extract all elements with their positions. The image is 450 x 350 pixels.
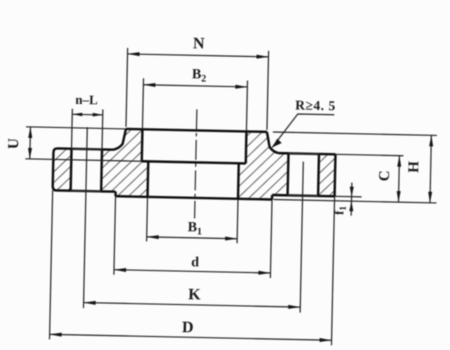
leader line R>=4.5 [272, 113, 334, 148]
hatched right rim section [318, 154, 335, 196]
plate top right [278, 153, 335, 154]
left bolt hole left wall [69, 149, 72, 191]
dimension f1 extension line (plate bottom) [335, 195, 362, 198]
D arrows [50, 332, 62, 336]
dimension H line [430, 135, 431, 202]
left bolt hole right wall [100, 149, 103, 191]
B2 arrows [143, 83, 155, 87]
hatched right hub/plate section [238, 131, 289, 200]
right bolt hole left wall [286, 153, 289, 195]
left bolt hole centerline / K extension [83, 127, 87, 308]
arrowheads [24, 50, 435, 344]
svg-text:U: U [6, 138, 22, 149]
dimension U line [29, 127, 32, 159]
dimension f1 line [350, 183, 353, 216]
R leader arrow [272, 139, 282, 148]
svg-text:D: D [182, 319, 194, 336]
f1 arrows [350, 187, 354, 197]
dimension U extension lines [26, 127, 126, 129]
right raised-face step [271, 195, 273, 199]
n-L arrows [72, 112, 82, 116]
svg-text:d: d [191, 255, 199, 270]
dimension d line [114, 270, 270, 273]
svg-text:H: H [406, 161, 422, 173]
dimension d extension lines [114, 196, 116, 274]
svg-text:R≥4. 5: R≥4. 5 [295, 97, 336, 113]
bottom extension line for C and H and f1 [273, 200, 436, 203]
plate top line across right bolt hole [288, 152, 318, 155]
left raised-face step [114, 192, 116, 196]
dimension N extension lines [126, 48, 128, 127]
plate bottom right [272, 195, 334, 196]
dimension H extension line (hub top) [273, 132, 437, 135]
flange outline: left rim [53, 127, 336, 200]
bore right wall [237, 163, 240, 198]
right hub fillet [266, 132, 278, 153]
dimension B2 line [143, 85, 247, 87]
svg-text:C: C [377, 170, 393, 181]
K arrows [84, 301, 96, 305]
H arrows [429, 135, 433, 146]
right bolt hole right wall [317, 154, 320, 196]
dimension n-L line [72, 113, 102, 116]
hatched left rim section [53, 148, 72, 190]
svg-text:K: K [188, 286, 201, 303]
counterbore left wall [141, 129, 144, 161]
dimension K line [84, 303, 301, 308]
plate top line across left bolt hole [72, 148, 102, 151]
svg-text:B2: B2 [192, 67, 207, 84]
left hub fillet [114, 129, 126, 150]
dimension C line [397, 156, 400, 202]
counterbore right wall [245, 131, 248, 163]
plate bottom line across left bolt hole [71, 190, 101, 193]
dimension B1 line [147, 237, 237, 239]
dimension D extension lines [50, 190, 53, 339]
d arrows [114, 268, 126, 272]
U arrows [28, 127, 32, 138]
left outer edge (rounded rim corners) [53, 148, 117, 191]
raised face bottom [116, 196, 272, 199]
dimension N line [128, 54, 269, 57]
dimension B1 extension lines [146, 197, 149, 241]
counterbore shoulder [142, 161, 246, 163]
right bolt hole centerline / K extension [300, 162, 303, 313]
right outer edge [333, 154, 336, 196]
plate bottom line across right bolt hole [288, 194, 318, 197]
svg-text:N: N [193, 35, 205, 52]
B1 arrows [147, 235, 159, 239]
bore left wall [146, 161, 149, 196]
flange vertical centerline (dashed) [195, 109, 197, 218]
C arrows [397, 156, 401, 167]
svg-text:n–L: n–L [75, 92, 98, 107]
dimension n-L extension lines [71, 109, 74, 149]
dimension B2 extension lines [142, 78, 143, 129]
svg-text:B1: B1 [188, 220, 203, 237]
hatched left hub/plate section [101, 128, 149, 196]
hub top face [126, 129, 267, 132]
dimension D line [50, 334, 332, 340]
N arrows [127, 52, 139, 56]
dimension C extension line (plate top) [335, 154, 403, 155]
